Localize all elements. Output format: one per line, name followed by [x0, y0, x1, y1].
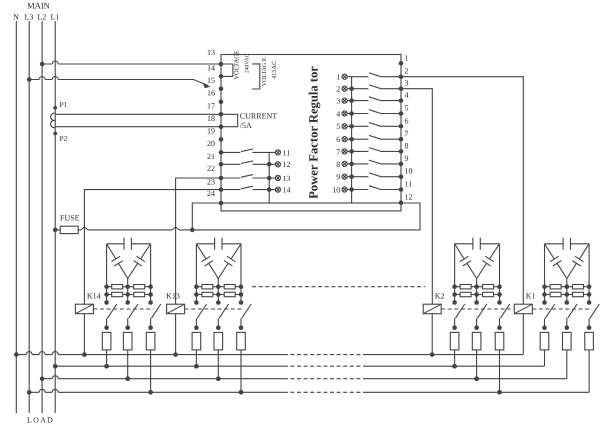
contact terminal 22 [221, 161, 275, 164]
pin 6 [399, 116, 409, 128]
wire L3 to terminal 16 with arrowhead [27, 77, 211, 89]
resistor K1 pole 2 [563, 332, 572, 350]
svg-text:8: 8 [336, 160, 340, 169]
contact terminal 21 [221, 149, 275, 152]
svg-text:VOLTAGE: VOLTAGE [233, 50, 240, 80]
contact K13 pole 1 [194, 304, 207, 330]
mechanical link K13 [185, 308, 244, 310]
svg-text:16: 16 [207, 88, 215, 97]
contactor coil K2 [423, 291, 444, 313]
wire bank phase drops K13 [194, 244, 243, 305]
bracket voltage 415AC [252, 64, 260, 89]
svg-text:CURRENT: CURRENT [240, 111, 277, 120]
lamp X2 [336, 85, 347, 94]
svg-text:P1: P1 [60, 100, 68, 109]
pin 16 [207, 87, 223, 98]
contactor coil K13 [166, 291, 185, 313]
capacitor delta top K1 [545, 238, 590, 250]
wire bank phase drops K1 [542, 244, 591, 305]
contact lamp 10 to terminal 11 [347, 186, 401, 190]
contact terminal 24 [221, 186, 275, 189]
contact K2 pole 1 [452, 304, 464, 330]
svg-text:4: 4 [405, 91, 409, 100]
svg-text:12: 12 [405, 193, 413, 202]
node rail right row 10 [349, 187, 354, 192]
pin 22 [207, 162, 223, 173]
node rail right row 4 [349, 111, 354, 116]
contact K1 pole 2 [565, 304, 578, 330]
resistor K2 pole 1 [450, 332, 459, 350]
lamp X13 [275, 174, 290, 183]
wire bank phase drops K2 [452, 244, 502, 305]
node rail right row 8 [349, 162, 354, 167]
mechanical link K2 [441, 308, 510, 310]
svg-text:8: 8 [405, 141, 409, 150]
wire bus L2 phase [40, 376, 567, 381]
discharge resistors K1 [545, 285, 590, 297]
node regulator bottom-left corner [219, 201, 224, 206]
wire K14 pole 1 to bus [104, 350, 109, 369]
svg-text:K13: K13 [166, 291, 180, 300]
pin 5 [399, 104, 409, 116]
wire coil K1 to N bus [522, 314, 524, 355]
svg-text:6: 6 [336, 135, 340, 144]
pin 9 [399, 154, 409, 166]
pin 19 [207, 124, 223, 135]
wire K13 pole 2 to bus [216, 350, 221, 381]
wire K2 pole 3 to bus [497, 350, 502, 395]
svg-text:MAIN: MAIN [27, 0, 50, 10]
svg-text:6: 6 [405, 116, 409, 125]
svg-text:N: N [13, 13, 19, 22]
contact terminal 23 [221, 175, 275, 178]
pin 12 [399, 193, 413, 205]
lamp X6 [336, 135, 347, 144]
capacitor delta left K2 [455, 244, 477, 279]
contact lamp 2 to terminal 3 [347, 85, 401, 89]
svg-text:L2: L2 [37, 13, 46, 22]
pin 10 [399, 167, 413, 179]
pin 4 [399, 91, 409, 103]
capacitor delta left K1 [545, 244, 567, 279]
wire CT to terminal 19 [56, 126, 221, 128]
mechanical link K14 [93, 308, 153, 310]
capacitor delta left K13 [196, 244, 218, 279]
wire CT to terminal 18 [56, 113, 221, 115]
node rail left row 12 [267, 162, 272, 167]
resistor K1 pole 1 [540, 332, 549, 350]
svg-text:9: 9 [405, 154, 409, 163]
svg-text:L3: L3 [24, 13, 33, 22]
contact lamp 3 to terminal 4 [347, 97, 401, 101]
pin 20 [207, 137, 223, 148]
wire terminal 23 to contactor K13 coil [176, 178, 221, 304]
svg-text:23: 23 [207, 178, 215, 187]
contactor coil K1 [514, 291, 535, 313]
wire L2 bus vertical [41, 21, 43, 413]
svg-text:7: 7 [336, 147, 340, 156]
value label VOLTAG E [262, 57, 268, 86]
resistor K14 pole 3 [146, 332, 155, 350]
node rail right row 7 [349, 149, 354, 154]
contact K1 pole 1 [542, 304, 555, 330]
lamp X11 [275, 148, 290, 157]
svg-text:2: 2 [405, 67, 409, 76]
wire K14 pole 3 to bus [148, 350, 153, 395]
contactor coil K14 [75, 291, 100, 313]
net label L2 [37, 13, 46, 22]
lamp X1 [336, 73, 347, 82]
contact K2 pole 3 [497, 304, 510, 330]
value label /5A [240, 121, 252, 130]
svg-text:24: 24 [207, 189, 215, 198]
svg-text:Power Factor Regula tor: Power Factor Regula tor [307, 66, 321, 199]
node rail right row 6 [349, 137, 354, 142]
svg-text:5: 5 [336, 122, 340, 131]
discharge resistors K14 [107, 285, 151, 297]
node rail left row 13 [267, 176, 272, 181]
wire bus N (coil return) [14, 352, 523, 357]
lamp X9 [336, 173, 347, 182]
contact lamp 9 to terminal 10 [347, 173, 401, 177]
svg-text:/5A: /5A [240, 121, 252, 130]
pin 23 [207, 176, 223, 187]
capacitor delta top K14 [107, 238, 151, 250]
pin 18 [207, 112, 223, 123]
wire coil K13 to N bus [175, 314, 177, 355]
resistor K13 pole 3 [237, 332, 246, 350]
svg-text:3: 3 [336, 97, 340, 106]
mechanical link K1 [532, 308, 592, 310]
power factor regulator U1 label [307, 66, 321, 199]
wire regulator bottom double bus [221, 203, 401, 211]
capacitor delta right K2 [477, 244, 500, 279]
svg-text:P2: P2 [60, 134, 68, 143]
wire K13 pole 3 to bus [239, 350, 244, 395]
pin 15 [207, 74, 223, 85]
lamp X14 [275, 186, 290, 195]
net label N [13, 13, 19, 22]
lamp X5 [336, 122, 347, 131]
value label VOLTAGE [233, 50, 240, 80]
wire terminal 2 to contactor K1 coil [401, 77, 523, 305]
pin 2 [399, 67, 409, 79]
svg-text:19: 19 [207, 126, 215, 135]
lamp X8 [336, 160, 347, 169]
contact K2 pole 2 [474, 304, 486, 330]
node rail right row 2 [349, 86, 354, 91]
resistor K2 pole 3 [495, 332, 504, 350]
svg-text:2: 2 [336, 85, 340, 94]
capacitor delta top K13 [196, 238, 241, 250]
contact lamp 1 to terminal 2 [347, 73, 401, 77]
svg-text:LOAD: LOAD [27, 415, 54, 424]
resistor K2 pole 2 [472, 332, 481, 350]
wire L2 to terminal 14 [40, 61, 221, 66]
capacitor delta right K1 [567, 244, 589, 279]
bracket terminals 14-15 voltage 240VAC [222, 64, 233, 76]
pin 1 [399, 53, 409, 65]
resistor K14 pole 2 [123, 332, 132, 350]
wire L1 bus vertical [54, 21, 56, 413]
wire K1 pole 2 to bus [566, 350, 568, 379]
svg-text:15: 15 [207, 76, 215, 85]
wire K2 pole 1 to bus [452, 350, 457, 369]
node rail right row 9 [349, 174, 354, 179]
node rail left row 14 [267, 187, 272, 192]
pin 11 [399, 180, 413, 192]
wire internal rail left block [268, 152, 270, 203]
fuse label FUSE [60, 214, 80, 223]
svg-text:14: 14 [283, 186, 291, 195]
capacitor delta top K2 [455, 238, 500, 250]
capacitor delta right K14 [128, 244, 151, 279]
svg-text:20: 20 [207, 139, 215, 148]
node P1 [53, 100, 67, 110]
lamp X3 [336, 97, 347, 106]
resistor K13 pole 1 [192, 332, 201, 350]
svg-text:5: 5 [405, 104, 409, 113]
value label 240VAC [244, 53, 250, 73]
discharge resistors K2 [455, 285, 500, 297]
svg-text:7: 7 [405, 129, 409, 138]
resistor K1 pole 3 [585, 332, 594, 350]
wire bus L1 phase [53, 364, 545, 369]
svg-text:11: 11 [405, 180, 413, 189]
net label MAIN [27, 0, 50, 10]
svg-text:13: 13 [283, 174, 291, 183]
lamp X12 [275, 160, 290, 169]
wire K2 pole 2 to bus [474, 350, 479, 381]
svg-text:240VAC: 240VAC [244, 53, 250, 73]
fuse F1 [53, 226, 78, 233]
svg-text:22: 22 [207, 164, 215, 173]
contact lamp 6 to terminal 7 [347, 135, 401, 139]
wire terminal 24 to contactor K14 coil [84, 190, 221, 305]
contact K14 pole 1 [104, 304, 117, 330]
wire regulator bottom to fuse line left [192, 203, 221, 230]
svg-text:12: 12 [283, 160, 291, 169]
current transformer loop on L1 [51, 113, 56, 128]
node P2 [53, 132, 67, 143]
contact K13 pole 2 [216, 304, 229, 330]
net label L3 [24, 13, 33, 22]
value label CURRENT [240, 111, 277, 120]
pin 7 [399, 129, 409, 141]
capacitor delta right K13 [218, 244, 241, 279]
svg-text:9: 9 [336, 173, 340, 182]
capacitor delta left K14 [107, 244, 128, 279]
svg-text:10: 10 [405, 167, 413, 176]
resistor K14 pole 1 [102, 332, 111, 350]
wire coil K14 to N bus [83, 314, 85, 355]
wire K1 pole 3 to bus [588, 350, 590, 392]
wire internal rail right block [351, 77, 353, 203]
pin 14 [207, 62, 223, 73]
contact lamp 4 to terminal 5 [347, 110, 401, 114]
discharge resistors K13 [196, 285, 241, 297]
contact K14 pole 3 [148, 304, 161, 330]
contact lamp 5 to terminal 6 [347, 123, 401, 127]
svg-text:FUSE: FUSE [60, 214, 80, 223]
node rail right row 5 [349, 124, 354, 129]
contact K1 pole 3 [587, 304, 600, 330]
pin 17 [207, 100, 223, 111]
pin 8 [399, 141, 409, 153]
lamp X10 [332, 185, 347, 194]
wire bank phase drops K14 [104, 244, 153, 305]
bracket terminals 18-19 current input [222, 114, 238, 126]
svg-text:10: 10 [332, 185, 340, 194]
svg-text:L1: L1 [50, 13, 59, 22]
wire fuse line to regulator wrap [78, 203, 420, 232]
wire L3 bus vertical [28, 21, 30, 413]
power factor regulator U1 outline [221, 55, 401, 204]
lamp X7 [336, 147, 347, 156]
svg-text:415AC: 415AC [271, 61, 278, 79]
svg-text:1: 1 [336, 73, 340, 82]
pin 24 [207, 187, 223, 198]
svg-text:K1: K1 [526, 291, 536, 300]
svg-text:11: 11 [283, 148, 291, 157]
svg-text:13: 13 [207, 48, 215, 57]
wire K14 pole 2 to bus [125, 350, 130, 381]
wire K13 pole 1 to bus [194, 350, 199, 369]
svg-text:K2: K2 [435, 291, 445, 300]
svg-text:14: 14 [207, 64, 215, 73]
pin 3 [399, 79, 409, 91]
svg-text:17: 17 [207, 101, 215, 110]
pin 21 [207, 150, 223, 161]
wire coil K2 to N bus [431, 314, 433, 355]
svg-text:3: 3 [405, 79, 409, 88]
svg-text:VOLTAG E: VOLTAG E [262, 57, 268, 86]
wire N bus vertical [15, 21, 17, 413]
pin 13 [207, 48, 215, 57]
svg-text:K14: K14 [87, 291, 101, 300]
net label LOAD [27, 415, 54, 424]
wire terminal 3 to contactor K2 coil [401, 89, 432, 305]
svg-text:4: 4 [336, 109, 340, 118]
contact K14 pole 2 [125, 304, 138, 330]
contact K13 pole 3 [239, 304, 252, 330]
contact lamp 8 to terminal 9 [347, 160, 401, 164]
value label 415AC [271, 61, 278, 79]
resistor K13 pole 2 [214, 332, 223, 350]
wire K1 pole 1 to bus [544, 350, 546, 366]
svg-text:18: 18 [207, 114, 215, 123]
net label L1 [50, 13, 59, 22]
svg-text:21: 21 [207, 152, 215, 161]
node rail right row 3 [349, 98, 354, 103]
lamp X4 [336, 109, 347, 118]
wire dashed continuation banks [252, 286, 425, 288]
svg-text:1: 1 [405, 53, 409, 62]
wire bus L3 phase [27, 389, 589, 394]
contact lamp 7 to terminal 8 [347, 148, 401, 152]
